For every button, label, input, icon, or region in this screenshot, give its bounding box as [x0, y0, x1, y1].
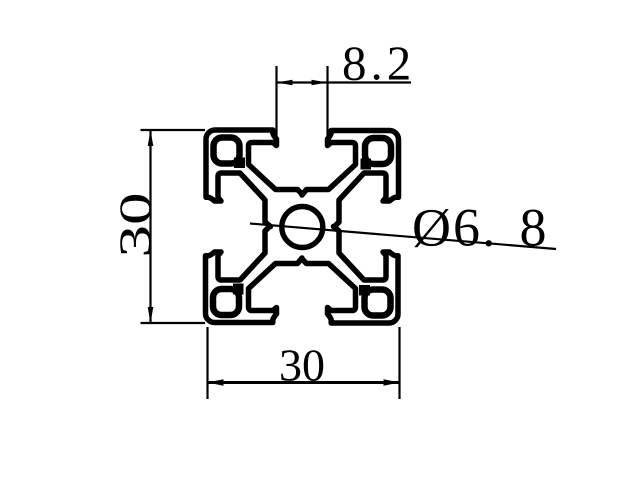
arrow 8.2 right [312, 80, 328, 86]
corner hole bottom-right [359, 285, 391, 316]
dim 8.2 extension lines [277, 66, 328, 139]
profile outline: 3030 T-slot extrusion cross-section [206, 130, 399, 323]
svg-text:Ø6.8: Ø6.8 [412, 198, 549, 258]
corner hole top-left (with notch tab toward center) [214, 138, 246, 169]
svg-text:8.2: 8.2 [342, 36, 415, 91]
svg-text:30: 30 [111, 192, 161, 257]
arrow 30 bottom right [384, 379, 400, 385]
corner hole top-right [361, 138, 392, 170]
svg-text:30: 30 [279, 340, 325, 391]
dim 30 left dimension line [149, 130, 151, 323]
dim 30 bottom dimension line [208, 381, 400, 384]
corner hole bottom-left [213, 284, 244, 316]
leader line diam 6.8 [250, 224, 556, 250]
arrow 30 left top [148, 130, 154, 146]
arrow 30 bottom left [208, 379, 224, 385]
dim 8.2 dimension line [277, 81, 412, 83]
arrow 8.2 left [277, 80, 293, 86]
arrow 30 left bottom [148, 307, 154, 323]
dim 30 bottom extension lines [208, 327, 400, 399]
dim 30 left extension lines [141, 130, 206, 323]
center hole circle (diam 6.8) [282, 207, 323, 248]
